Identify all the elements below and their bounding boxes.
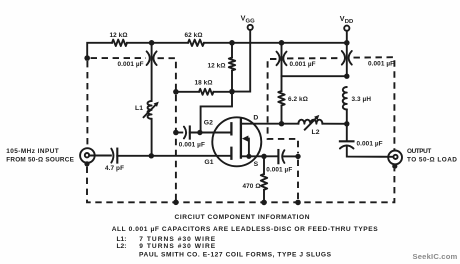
svg-text:S: S [254,161,259,168]
wire 6.2k rail [282,75,347,77]
shield dashed left vertical [86,61,88,148]
wire L1 branch upper [151,43,153,101]
svg-text:470 Ω: 470 Ω [243,183,261,190]
shield dashed source bypass branch [268,59,298,153]
transistor Q1 substrate arrow [242,136,249,142]
shield dashed top-right [354,57,395,150]
shield dashed mid top [287,57,340,59]
svg-text:6.2 kΩ: 6.2 kΩ [288,96,308,103]
wire VDD drop [346,31,348,76]
svg-text:4.7 pF: 4.7 pF [105,165,124,172]
shield dashed left compartment right side [158,58,176,202]
capacitor C4 0.001uF (source bypass) [277,150,279,163]
node rail-C5 [279,40,285,46]
wire R5 bottom lead [263,190,265,203]
wire R6 leads [281,76,283,124]
resistor R6 6.2k (drain) [278,91,284,106]
wire drain to L2 [282,123,299,125]
transistor Q1 source lead [241,155,278,157]
svg-text:7 TURNS #30 WIRE: 7 TURNS #30 WIRE [139,236,216,243]
shield dashed top-left horizontal [91,57,146,59]
node G2 junction [197,130,202,135]
resistor R2 62k (top rail) [188,40,204,46]
inductor L2 variable [298,120,322,124]
resistor R1 12k (top rail) [112,40,127,46]
connector J2 output [388,151,402,165]
resistor R5 470 (source) [261,174,267,190]
node rail-VDD [344,40,350,46]
wire R4 left lead [176,91,199,93]
inductor L3 3.3uH [343,87,347,110]
shield dashed bypass lower [297,160,299,203]
shield node bypass top [295,154,300,159]
svg-text:0.001 µF: 0.001 µF [179,141,205,148]
shield node bottom left [173,200,179,206]
arrow L1 adjust [144,105,156,117]
wire C5 drop [281,43,283,76]
svg-text:0.001 µF: 0.001 µF [368,60,394,67]
svg-text:18 kΩ: 18 kΩ [195,79,213,86]
svg-text:TO 50-Ω LOAD: TO 50-Ω LOAD [407,157,457,164]
node bias junction [229,89,235,95]
node G1 L1 junction [149,153,154,158]
wire tank to C7 [346,124,348,141]
inductor L1 variable [148,101,152,119]
wire R3 top lead [231,43,233,58]
svg-text:SeekIC.com: SeekIC.com [413,252,458,261]
svg-text:FROM 50-Ω SOURCE: FROM 50-Ω SOURCE [6,157,74,164]
svg-text:12 kΩ: 12 kΩ [208,62,226,69]
svg-text:VDD: VDD [340,14,354,25]
svg-text:0.001 µF: 0.001 µF [118,61,144,68]
node source junction [261,154,266,159]
svg-text:62 kΩ: 62 kΩ [185,32,203,39]
wire L2 to tank [322,123,346,125]
connector J1 input [80,148,95,163]
wire R3 bottom lead [231,71,233,92]
wire shield to C3 [176,132,182,134]
shield node G2 cap tap [173,130,179,136]
svg-text:9 TURNS #30 WIRE: 9 TURNS #30 WIRE [139,243,216,250]
svg-text:0.001 µF: 0.001 µF [266,166,292,173]
junction J2 shield dot [392,164,397,169]
svg-text:0.001 µF: 0.001 µF [357,141,383,148]
terminal VDD [344,26,349,31]
svg-text:L1:: L1: [117,236,127,243]
resistor R3 12k (G2 divider upper) [229,58,235,71]
terminal VGG [248,25,253,30]
node rail-L1 [149,40,155,46]
node drain junction [279,121,284,126]
svg-text:105-MHz INPUT: 105-MHz INPUT [6,148,59,155]
svg-text:3.3 µH: 3.3 µH [352,96,372,103]
wire top bias rail [87,43,347,58]
svg-text:D: D [253,115,258,122]
svg-text:CIRCIUT COMPONENT INFORMATION: CIRCIUT COMPONENT INFORMATION [175,214,310,221]
capacitor C1 0.001uF feed-thru [147,51,150,65]
arrow L2 adjust [305,119,316,130]
capacitor C2 4.7pF [111,149,113,163]
svg-text:G2: G2 [204,120,213,127]
shield dashed bottom bus [87,167,394,203]
capacitor C6 0.001uF feed-thru [342,51,345,65]
transistor Q1 body circle [212,117,261,166]
capacitor C3 0.001uF (G2) [184,127,186,139]
resistor R4 18k (G2 divider lower) [199,89,214,95]
wire L1 lower lead [151,119,153,156]
shield dot top-left [84,55,90,61]
transistor Q1 channel [240,119,242,158]
svg-text:L2: L2 [312,129,320,136]
wire L3 bottom lead [346,110,348,124]
transistor Q1 gate bars [230,123,232,158]
transistor Q1 drain lead [241,123,282,125]
svg-text:L2:: L2: [117,243,127,250]
node VDD-6.2k junction [344,74,349,79]
svg-text:VGG: VGG [241,13,256,24]
junction J1 shield dot [84,161,89,166]
svg-text:PAUL SMITH CO. E-127 COIL FORM: PAUL SMITH CO. E-127 COIL FORMS, TYPE J … [139,252,332,259]
svg-text:0.001 µF: 0.001 µF [290,61,316,68]
wire R4 right lead [214,91,233,93]
wire R5 top lead [263,156,265,174]
wire VGG feed [232,30,250,92]
wire C4 to shield [284,155,298,157]
wire G2 bias drop [201,92,232,133]
svg-text:OUTPUT: OUTPUT [407,148,431,155]
wire G1 line [117,155,231,157]
wire J1 to C2 [89,155,111,157]
node substrate-source junction [246,154,251,159]
wire C3 to G2 [190,132,232,134]
svg-text:G1: G1 [204,159,213,166]
node tank junction [344,121,349,126]
capacitor C7 0.001uF (output) [340,140,354,142]
svg-text:L1: L1 [135,105,143,112]
svg-text:ALL 0.001 µF CAPACITORS ARE LE: ALL 0.001 µF CAPACITORS ARE LEADLESS-DIS… [112,226,379,233]
wire C7 to J2 [347,146,394,157]
svg-text:12 kΩ: 12 kΩ [110,32,128,39]
capacitor C5 0.001uF feed-thru [277,52,280,66]
node rail-R3 [229,40,235,46]
shield node 470 return [261,200,267,206]
shield node bypass return [295,200,301,206]
shield node 18k tap [173,89,179,95]
